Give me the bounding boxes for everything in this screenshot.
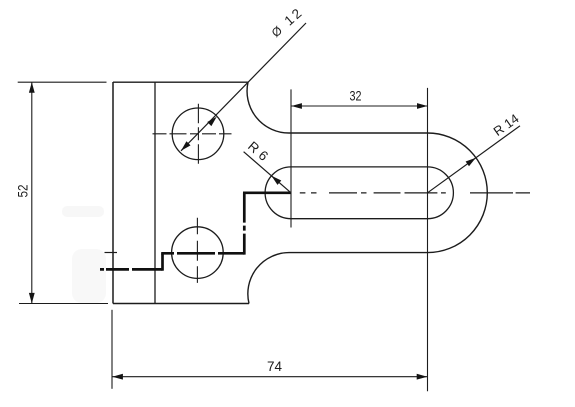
dim 32 left extension line (290, 89, 292, 227)
lower hole vertical centerline (196, 218, 198, 287)
part outline: bottom concave fillet (248, 253, 289, 304)
thick cutting plane line segment e (243, 191, 291, 194)
part outline: boss bottom edge (289, 252, 428, 254)
dia 12 leader line (181, 23, 306, 151)
lower hole centerline stub left (105, 252, 118, 254)
upper hole horizontal centerline (153, 133, 232, 135)
upper hole vertical centerline (197, 104, 199, 166)
dim 32 right arrow (417, 103, 428, 109)
dia 12 lower arrow (181, 141, 191, 151)
dim 32 dimension line (291, 105, 428, 107)
dia 12 upper arrow (207, 117, 217, 127)
dim 74 right arrow (417, 374, 428, 380)
dim 52 bottom arrow (29, 293, 35, 304)
thick cutting plane line segment a (100, 268, 163, 271)
dim 52 top extension line (18, 81, 107, 83)
dim 32 / 74 right extension line (427, 88, 429, 391)
faint smudge left (62, 206, 104, 217)
part outline: boss top edge (289, 132, 428, 134)
slot outline (265, 167, 453, 219)
R6 arrow (271, 176, 281, 185)
dim 52 dimension line (31, 82, 33, 303)
dim 52 bottom extension line (19, 303, 108, 305)
R14 arrow (466, 158, 476, 167)
thick cutting plane line segment d (243, 193, 246, 255)
dim 52 top arrow (29, 82, 35, 93)
thick cutting plane line segment b (161, 253, 164, 270)
svg-text:74: 74 (267, 358, 282, 374)
lower hole (172, 227, 224, 279)
part outline: R14 arc (428, 133, 488, 253)
upper hole (172, 108, 224, 160)
part outline: top edge (113, 81, 248, 83)
dim 74 left extension line (111, 310, 113, 389)
faint smudge lower-left (72, 249, 106, 303)
dim 74 dimension line (112, 376, 427, 378)
slot centerline (300, 192, 530, 194)
part outline: inner vertical line (154, 82, 156, 304)
dim 32 left arrow (291, 103, 302, 109)
R6 leader line (244, 152, 291, 193)
R14 leader line (428, 126, 521, 193)
thick cutting plane line segment c (161, 252, 244, 255)
part outline: bottom edge (113, 303, 249, 305)
part outline: top concave fillet (247, 82, 289, 133)
svg-text:32: 32 (350, 88, 362, 103)
svg-text:52: 52 (16, 185, 31, 198)
part outline: left edge (112, 82, 114, 304)
dim 74 left arrow (112, 374, 123, 380)
